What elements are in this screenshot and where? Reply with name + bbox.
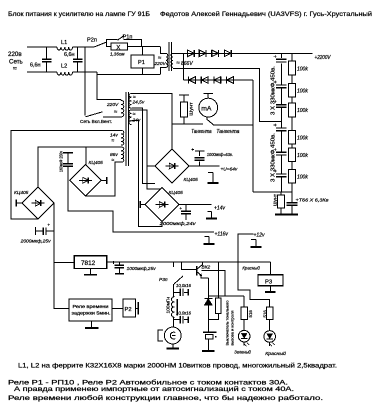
svg-text:100k: 100k xyxy=(297,108,308,114)
wire ladder cap link 5 xyxy=(280,155,282,174)
wire ladder cap link 1 xyxy=(280,63,282,85)
resistor R6 100k xyxy=(289,169,296,182)
switch Р1п xyxy=(118,35,133,41)
capacitor C3 330мкФ xyxy=(274,100,287,107)
wire bridge4 plus xyxy=(179,204,212,206)
ground at +U=64v xyxy=(208,173,219,184)
svg-text:2000мкф,25v: 2000мкф,25v xyxy=(20,239,52,244)
wire chain2 down to B-minus xyxy=(252,80,254,192)
wire 24v top tap xyxy=(132,110,162,189)
wire shunt bottom rail xyxy=(172,123,203,125)
terminal bridge1 minus xyxy=(16,200,22,207)
wire HV top rail xyxy=(173,52,313,54)
transformer T1 secondary winding xyxy=(171,54,193,68)
svg-text:Красный: Красный xyxy=(265,350,286,356)
rectifier bridge КЦ405 VD9 xyxy=(14,187,54,219)
label 2000мкф 25v input xyxy=(20,239,52,244)
wire 14v tap big loop xyxy=(11,130,121,219)
wire 86v tap xyxy=(86,162,122,196)
rotated note line1 xyxy=(225,300,230,346)
diode VD7 xyxy=(214,77,221,84)
label Шунт xyxy=(189,101,195,115)
capacitor C6 330мкФ xyxy=(274,169,287,176)
label R3 100k xyxy=(297,108,308,114)
svg-text:6,6н: 6,6н xyxy=(64,52,74,58)
diode VD5 xyxy=(189,77,196,84)
capacitor 6,6n left xyxy=(30,47,51,72)
wire ladder res link 6 xyxy=(291,183,293,192)
svg-text:Р1: Р1 xyxy=(138,60,145,66)
svg-text:+14v: +14v xyxy=(214,205,225,211)
label +12v xyxy=(254,232,265,238)
note time relay xyxy=(8,395,323,402)
wire ladder res link 5 xyxy=(291,161,293,169)
svg-text:КЦ405: КЦ405 xyxy=(169,190,184,196)
ground at +116v xyxy=(204,237,215,245)
wire mid tap xyxy=(38,147,121,187)
resistor X 1,3ом xyxy=(110,43,128,56)
svg-text:вызова и контроля: вызова и контроля xyxy=(230,311,235,346)
capacitor C5 330мкФ xyxy=(274,148,287,155)
svg-text:100k: 100k xyxy=(297,66,308,72)
ground under 1000мкф cap xyxy=(115,271,124,274)
ground at +14v xyxy=(206,212,217,219)
svg-text:1,36ом: 1,36ом xyxy=(110,52,125,57)
svg-text:Блок питания к усилителю на ла: Блок питания к усилителю на лампе ГУ 91Б xyxy=(8,11,150,18)
rectifier bridge КЦ405 VD12 xyxy=(145,188,183,222)
relay box Реле времени xyxy=(69,299,112,321)
wire mains top xyxy=(27,46,57,48)
wire T1 primary bottom rail xyxy=(97,72,160,75)
wire emitter down xyxy=(207,278,209,299)
svg-text:Тангента: Тангента xyxy=(216,129,239,135)
label +2200V xyxy=(315,55,331,61)
svg-text:L2: L2 xyxy=(61,64,67,70)
wire cap1 to choke xyxy=(173,292,175,296)
svg-text:220в: 220в xyxy=(8,51,22,58)
label Сеть xyxy=(9,59,23,66)
terminal bridge4 minus xyxy=(140,201,145,208)
svg-text:220V: 220V xyxy=(106,102,119,108)
capacitor at B-minus xyxy=(287,192,298,209)
svg-text:24,5v: 24,5v xyxy=(132,100,145,106)
terminal meter top xyxy=(204,93,213,95)
label 516 green xyxy=(248,310,253,318)
transformer T2 winding 24v xyxy=(129,110,141,125)
svg-text:10,0х16: 10,0х16 xyxy=(176,310,192,315)
svg-text:3 Х 330мкФ 450в.: 3 Х 330мкФ 450в. xyxy=(271,66,277,115)
relay coil Р1 xyxy=(131,55,154,68)
label Т66 node xyxy=(296,198,330,204)
svg-text:+12v: +12v xyxy=(254,232,265,238)
switch Сеть Вкл.Вент. xyxy=(86,112,103,117)
label Тангента 2 xyxy=(216,129,239,135)
wire after P2p xyxy=(106,46,111,48)
svg-text:1000мкф=63в.: 1000мкф=63в. xyxy=(207,152,233,157)
wire diode to node xyxy=(207,305,209,319)
label +U=64v xyxy=(221,166,238,172)
resistor R2 100k xyxy=(289,83,296,97)
diode VD4 xyxy=(224,50,231,57)
wire base feed xyxy=(181,262,196,269)
label 100мГн xyxy=(165,296,170,313)
bell xyxy=(158,327,181,344)
wire tangenta right xyxy=(214,124,253,126)
switch Р2п xyxy=(87,38,106,48)
svg-text:100мГн: 100мГн xyxy=(165,296,170,313)
ground under HV shunt xyxy=(275,213,287,215)
label Тангента 1 xyxy=(191,129,211,135)
wire mains bottom xyxy=(27,71,57,73)
svg-text:Шунт: Шунт xyxy=(189,101,195,115)
svg-text:7812: 7812 xyxy=(81,260,96,267)
label Зеленый xyxy=(234,349,251,355)
transformer T2 winding 86v xyxy=(110,147,124,164)
svg-text:≈: ≈ xyxy=(112,138,115,144)
note relays 1 xyxy=(8,380,288,387)
svg-text:Красный: Красный xyxy=(242,264,260,271)
resistor 516 red xyxy=(267,307,273,320)
svg-text:L1, L2 на феррите К32Х16Х8 мар: L1, L2 на феррите К32Х16Х8 марки 2000НМ … xyxy=(18,363,337,370)
svg-text:Тангента: Тангента xyxy=(191,129,211,135)
capacitor 6,6n right xyxy=(64,47,82,72)
wire Р1п branch xyxy=(107,40,142,47)
wire switch to T2 primary xyxy=(103,116,121,118)
inductor 100мГн choke xyxy=(171,297,177,318)
wire X to T1 xyxy=(128,46,160,48)
capacitor C4 330мкФ xyxy=(274,123,287,130)
note relays 2 xyxy=(14,386,294,393)
note L1L2 xyxy=(18,363,337,370)
terminal shunt top xyxy=(179,94,189,96)
svg-text:Сеть Вкл.Вент.: Сеть Вкл.Вент. xyxy=(80,119,112,125)
svg-text:≈: ≈ xyxy=(112,158,115,164)
wire choke to cap2 xyxy=(173,317,175,319)
wire to Р1 coil xyxy=(141,47,143,56)
rectifier bridge КЦ405 VD10 xyxy=(70,160,103,196)
inductor L1 xyxy=(57,40,73,50)
label 516 red xyxy=(263,310,268,318)
battery 9в xyxy=(203,320,216,340)
svg-text:1000мкф,25v: 1000мкф,25v xyxy=(127,266,157,271)
svg-text:+U=64v: +U=64v xyxy=(221,166,238,172)
relay РЗ xyxy=(258,275,283,286)
capacitor 10,0х16 lower xyxy=(174,310,192,323)
svg-text:Шунт: Шунт xyxy=(273,193,279,206)
wire ladder cap link 2 xyxy=(280,88,282,105)
ground under time relay xyxy=(85,321,99,328)
terminal bridge2 plus xyxy=(101,177,106,184)
wire 24v bottom tap xyxy=(132,121,162,227)
svg-text:ВК2: ВК2 xyxy=(202,264,211,270)
svg-text:516: 516 xyxy=(248,310,253,318)
switch Р3п xyxy=(159,276,183,284)
ground under 7812 xyxy=(84,269,97,275)
wire ladder res stem top xyxy=(291,53,293,61)
svg-text:10,0х16: 10,0х16 xyxy=(176,283,192,288)
svg-text:L1: L1 xyxy=(61,40,67,46)
svg-text:+Т66 Х 6,3Кв: +Т66 Х 6,3Кв xyxy=(296,198,330,204)
label AC tilde xyxy=(13,66,17,73)
wire to 7812 input xyxy=(54,261,74,263)
capacitor 2000мкф 24v xyxy=(180,205,192,220)
rectifier bridge КЦ405 VD11 xyxy=(155,149,198,183)
svg-text:Р3п: Р3п xyxy=(159,277,168,283)
svg-text:Реле времени любой конструкции: Реле времени любой конструкции главное, … xyxy=(8,395,323,402)
svg-text:100k: 100k xyxy=(297,136,308,142)
svg-text:Р1п: Р1п xyxy=(123,35,133,41)
wire ladder cap stem 1 xyxy=(280,53,282,58)
wire 24,5v bottom tap xyxy=(132,108,155,183)
svg-text:Зеленый: Зеленый xyxy=(234,349,251,355)
transformer T2 primary winding xyxy=(106,100,124,117)
regulator 7812 xyxy=(74,256,107,269)
transformer T2 winding 24,5v xyxy=(129,94,145,109)
label Шунт HV xyxy=(273,193,279,206)
label Красный top xyxy=(242,264,260,271)
wire T2 feed left xyxy=(84,47,86,116)
diode VD8 xyxy=(227,77,234,84)
wire 24,5v top tap xyxy=(132,94,172,149)
label R1 100k xyxy=(297,66,308,72)
wire ladder res link 4 xyxy=(291,144,293,148)
svg-text:3 Х 330мкФ 450в.: 3 Х 330мкФ 450в. xyxy=(271,133,277,182)
diode VD1 xyxy=(188,50,195,57)
wire ladder bottom node xyxy=(253,191,292,193)
wire T1 primary top lead xyxy=(160,47,166,54)
wire bridge3 plus xyxy=(189,165,220,167)
wire relay to Р2 xyxy=(112,307,123,309)
svg-text:Р2: Р2 xyxy=(125,307,132,313)
resistor R5 100k xyxy=(289,148,296,161)
wire bridge2 top stem xyxy=(85,147,87,165)
wire cap2 to bell xyxy=(173,320,175,328)
wire ladder res link 3 xyxy=(291,117,293,131)
diode VD2 xyxy=(199,50,206,57)
label 220v xyxy=(8,51,22,58)
svg-text:Федотов Алексей Геннадьевич (U: Федотов Алексей Геннадьевич (UA3VFS) г. … xyxy=(160,10,372,18)
wire Р3п stub xyxy=(173,262,175,267)
svg-text:РЗ: РЗ xyxy=(265,279,273,285)
wire ladder cap link 6 xyxy=(280,177,282,193)
transformer T2 core xyxy=(126,92,129,166)
svg-text:задержки 5мин.: задержки 5мин. xyxy=(72,311,111,316)
wire mains top after L1 xyxy=(73,46,94,48)
svg-text:Сеть: Сеть xyxy=(9,59,23,66)
resistor Шунт xyxy=(181,95,188,124)
rotated note line2 xyxy=(230,311,235,346)
svg-text:Реле времени: Реле времени xyxy=(73,304,110,309)
ground under РЗ xyxy=(265,286,276,292)
label R4 100k xyxy=(297,136,308,142)
wire Р1 to bottom rail xyxy=(141,68,143,75)
author note xyxy=(160,10,372,18)
label 1000мкф 25v xyxy=(127,266,157,271)
capacitor 160мкФ 250v xyxy=(63,153,73,167)
svg-text:516: 516 xyxy=(263,310,268,318)
resistor R4 100k xyxy=(289,131,296,144)
capacitor C2 330мкФ xyxy=(274,80,287,87)
label Красный bottom xyxy=(265,350,286,356)
title xyxy=(8,11,150,18)
capacitor 10,0х16 upper xyxy=(174,283,192,296)
svg-text:2000мкф,24v: 2000мкф,24v xyxy=(158,221,196,226)
wire ladder res link 1 xyxy=(291,75,293,83)
meter mA xyxy=(199,94,218,118)
resistor R3 100k xyxy=(289,103,296,117)
wire T1 primary bottom lead xyxy=(160,67,166,74)
diode VD13 xyxy=(204,298,212,305)
label 160мкФ 250v xyxy=(59,150,64,172)
ground under bell xyxy=(167,344,180,349)
svg-text:КЦ405: КЦ405 xyxy=(14,190,29,196)
label +14v xyxy=(214,205,225,211)
svg-text:100k: 100k xyxy=(297,153,308,159)
wire green feed xyxy=(208,295,244,297)
diode VD3 xyxy=(212,50,219,57)
wire bridge1 plus down xyxy=(53,203,55,262)
svg-text:КЦ405: КЦ405 xyxy=(89,160,104,166)
relay coil Р2 xyxy=(123,299,136,317)
resistor shunt HV xyxy=(278,192,285,212)
wire ladder cap link 4 xyxy=(280,131,282,153)
relay Р2 armature xyxy=(136,302,139,315)
LED red xyxy=(264,320,276,347)
switch Тангента xyxy=(207,117,213,125)
label 3x330мкФ group2 xyxy=(271,133,277,182)
wire +12v to red chain xyxy=(238,234,270,307)
ground under battery xyxy=(202,339,215,351)
svg-text:≈: ≈ xyxy=(13,66,17,73)
wire collector tap to green xyxy=(201,270,225,296)
resistor R1 100k xyxy=(289,61,296,75)
wire rail to РЗ xyxy=(269,262,271,275)
inductor L2 xyxy=(57,64,73,76)
svg-text:100k: 100k xyxy=(297,88,308,94)
wire T1 center tap xyxy=(173,68,281,121)
wire switch down xyxy=(173,284,175,292)
capacitor 1000мкф 25v xyxy=(112,261,124,272)
ground at +12v xyxy=(251,240,262,248)
wire +12v rail xyxy=(150,261,270,263)
label 3x330мкФ group1 xyxy=(271,66,277,115)
svg-text:≈: ≈ xyxy=(133,111,136,117)
wire to time relay xyxy=(54,262,69,308)
label R2 100k xyxy=(297,88,308,94)
label R5 100k xyxy=(297,153,308,159)
capacitor C1 330мкФ xyxy=(274,55,287,62)
capacitor 1000мкф 63в xyxy=(192,148,205,166)
svg-text:220V: 220V xyxy=(154,61,167,67)
svg-text:X: X xyxy=(116,44,120,51)
label Сеть Вкл.Вент. xyxy=(80,119,112,125)
wire HV chain2 rail xyxy=(183,79,253,81)
wire ladder res link 2 xyxy=(291,97,293,103)
svg-text:+2200V: +2200V xyxy=(315,55,331,61)
wire T2 feed right xyxy=(97,72,121,100)
ground under B-minus cap xyxy=(286,210,298,215)
wire mains bottom after L2 xyxy=(73,71,97,73)
resistor ВК2 collector load xyxy=(208,262,221,319)
diode VD6 xyxy=(201,77,208,84)
svg-text:100k: 100k xyxy=(297,174,308,180)
label R6 100k xyxy=(297,174,308,180)
label 2000мкф 24v xyxy=(158,221,196,226)
label +116v xyxy=(215,231,229,237)
LED green xyxy=(238,320,250,347)
svg-text:mA: mA xyxy=(201,105,212,112)
svg-text:Р2п: Р2п xyxy=(87,38,97,44)
wire 7812 output rail xyxy=(107,261,271,263)
label 1000мкф 63в xyxy=(207,152,233,157)
capacitor 2000мкф 25v input xyxy=(36,224,55,235)
svg-text:160мкФ 250v: 160мкФ 250v xyxy=(59,150,64,172)
wire bridge3 left lead xyxy=(147,165,155,167)
transistor ВК2 xyxy=(197,262,211,278)
svg-text:А правда применею импортные от: А правда применею импортные от автосигна… xyxy=(14,386,294,393)
wire bridge2 minus path xyxy=(68,166,214,232)
resistor 516 green xyxy=(241,296,247,319)
transformer T1 primary winding xyxy=(154,54,168,68)
svg-text:6,6н: 6,6н xyxy=(30,63,40,69)
transformer T2 winding 14v xyxy=(110,130,124,145)
svg-text:+116v: +116v xyxy=(215,231,229,237)
transformer T1 core xyxy=(169,42,171,71)
svg-text:КЦ405: КЦ405 xyxy=(184,177,199,183)
wire secondary top to chain2 xyxy=(182,53,184,80)
wire ladder cap link 3 xyxy=(280,107,282,128)
